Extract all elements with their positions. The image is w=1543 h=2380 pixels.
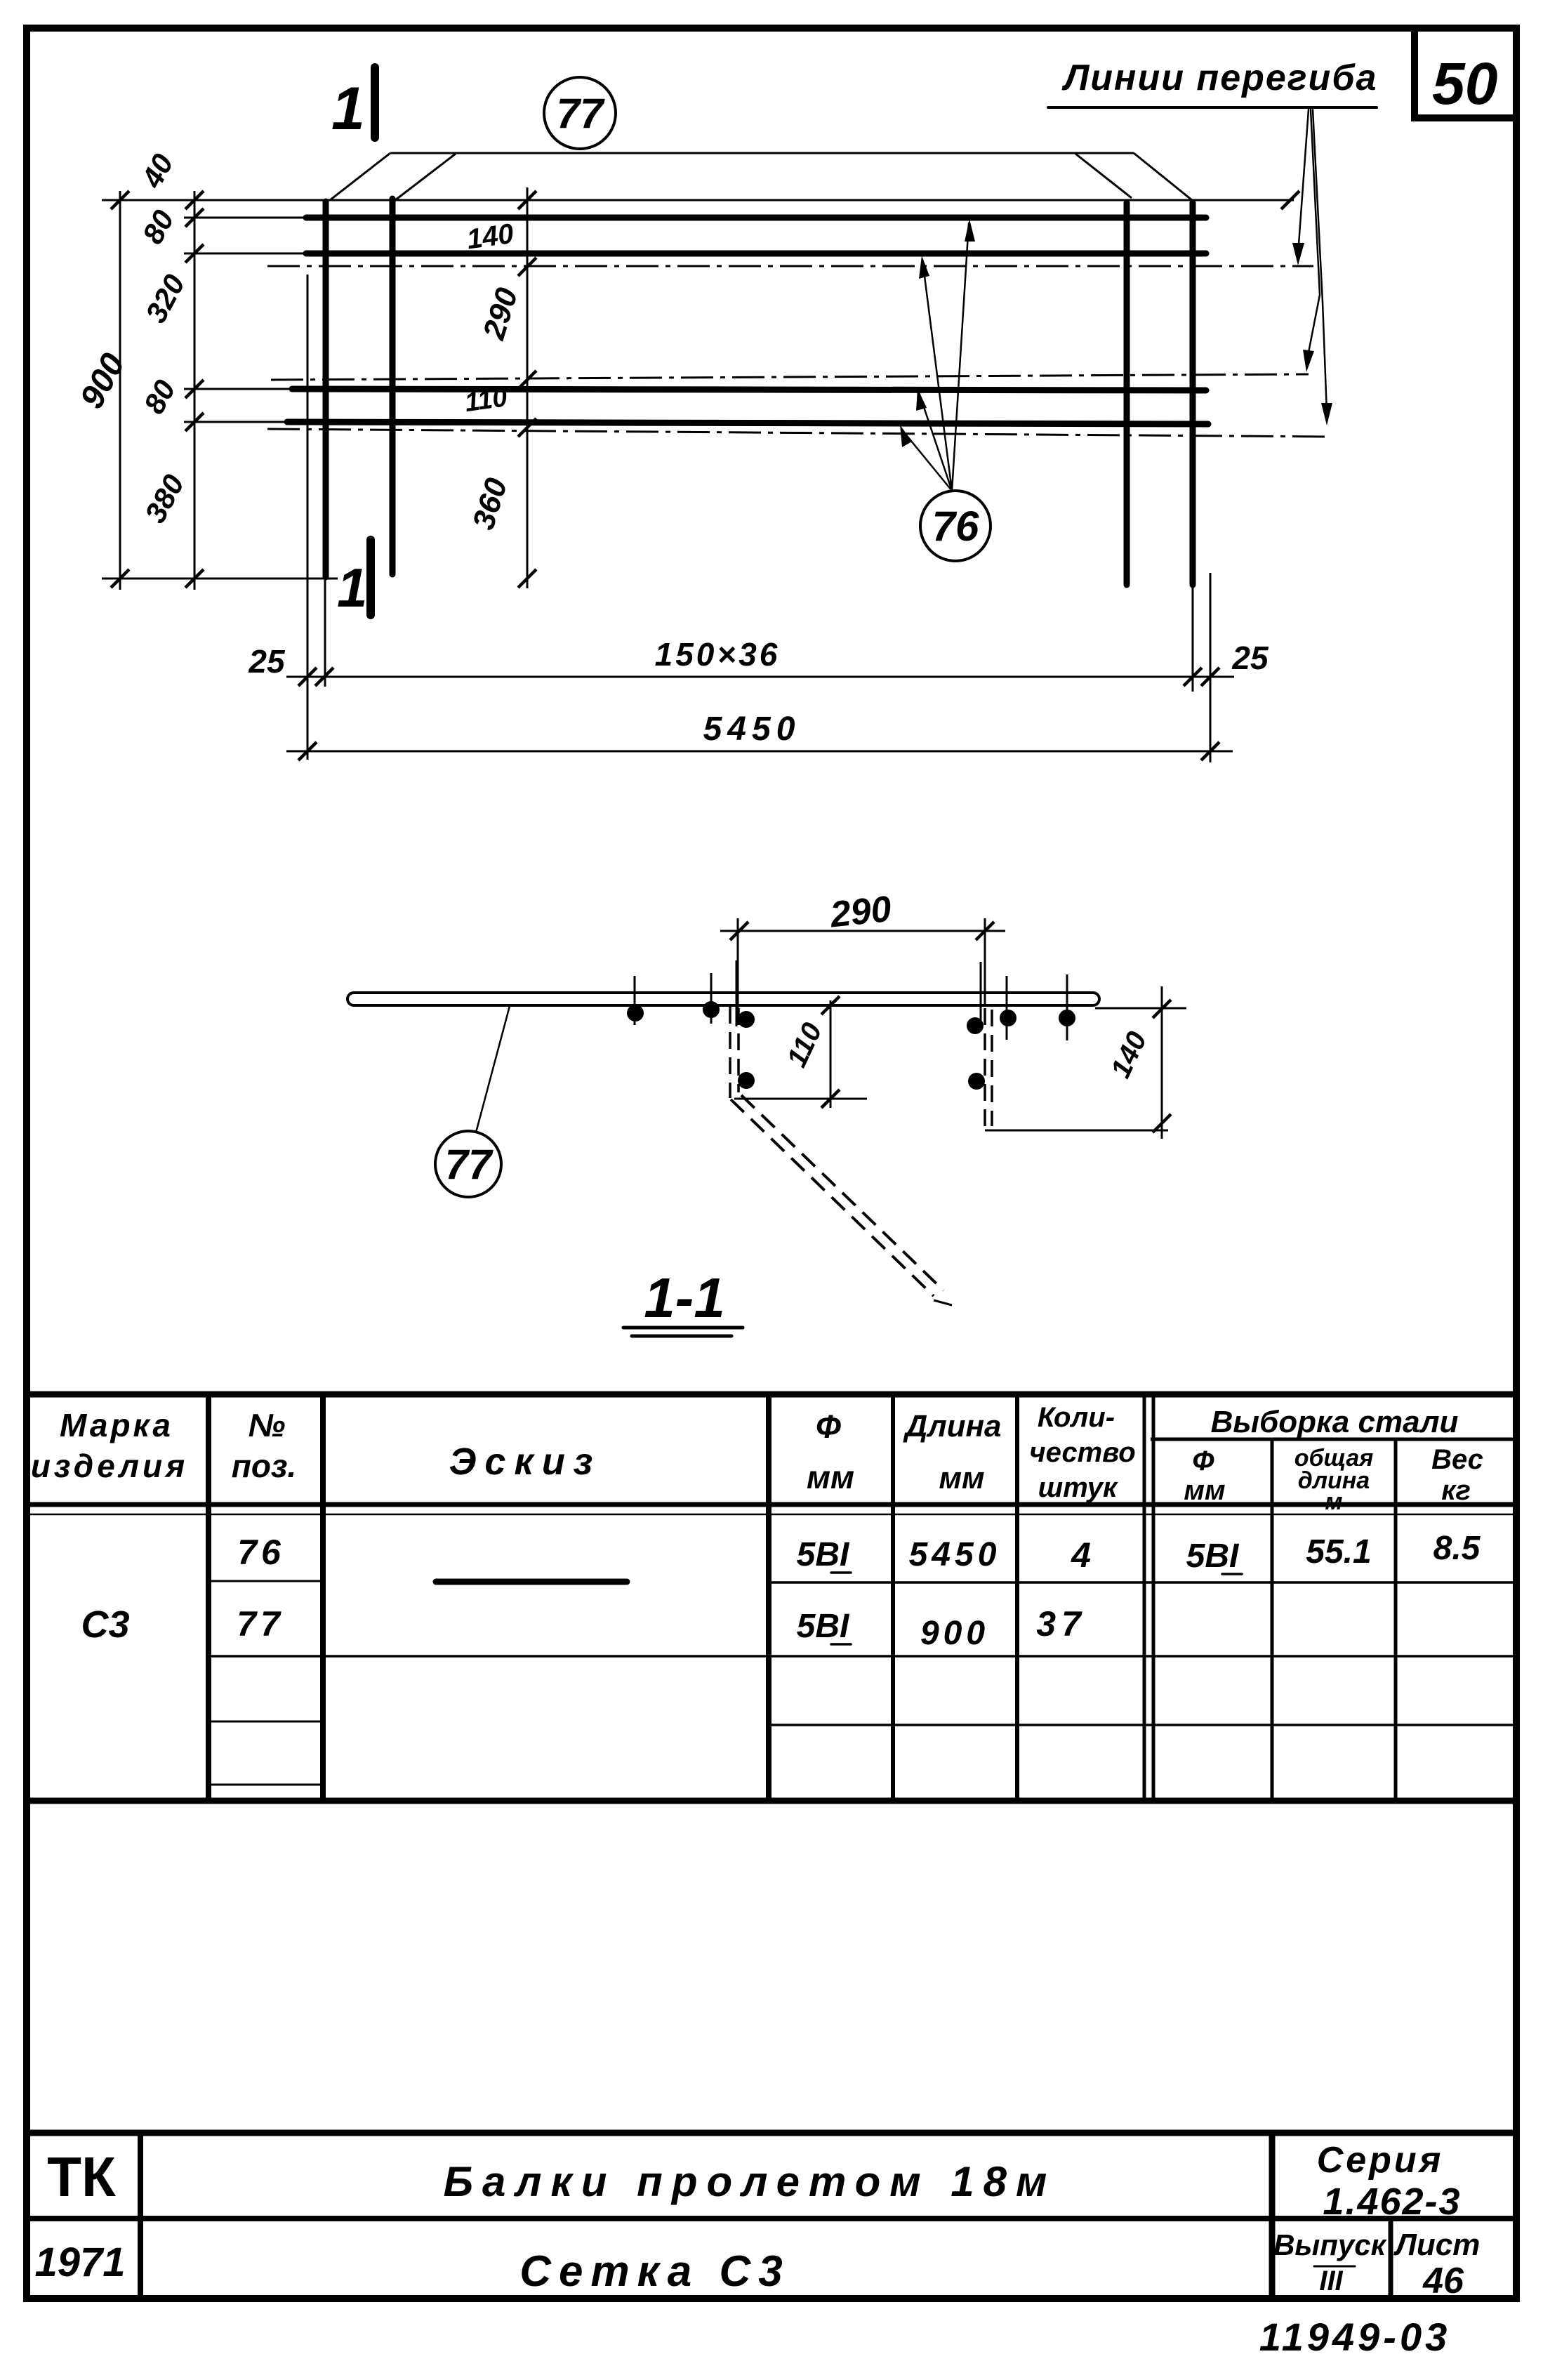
- leader arrow to fold line 2: [1307, 110, 1320, 359]
- header bottom thin line: [27, 1514, 1515, 1516]
- svg-text:мм: мм: [807, 1459, 854, 1495]
- bar 76 section dot: [627, 1005, 644, 1022]
- bar 76 section dot: [968, 1073, 985, 1090]
- thin extension of bar4 to dim column: [184, 421, 289, 423]
- crossing bar tick no.2: [710, 973, 713, 1024]
- right corner chamfer inner fold: [1075, 154, 1132, 198]
- svg-text:150×36: 150×36: [655, 636, 781, 673]
- table top border: [27, 1391, 1515, 1398]
- column line marka/pos: [206, 1394, 211, 1801]
- longitudinal bar 76 no.1: [306, 215, 1206, 221]
- extension line right bar end: [1210, 573, 1212, 762]
- SECTION 1-1: [347, 889, 1186, 1336]
- sheet top edge (unfolded): [390, 152, 1134, 154]
- fold line 3 dash-dot: [267, 429, 1327, 437]
- right corner chamfer outer: [1134, 153, 1192, 200]
- bar 76 section dot: [967, 1017, 984, 1034]
- svg-text:11949-03: 11949-03: [1259, 2315, 1451, 2359]
- dimension line 5450: [286, 751, 1233, 753]
- svg-text:110: 110: [463, 383, 509, 418]
- right fold dashed vertical: [984, 1008, 986, 1129]
- title block bottom border: [23, 2295, 1518, 2302]
- bottom edge line: [102, 578, 338, 580]
- svg-text:Ф: Ф: [816, 1408, 841, 1445]
- svg-text:Марка: Марка: [60, 1407, 173, 1443]
- svg-text:55.1: 55.1: [1306, 1533, 1371, 1571]
- fold line 1 dash-dot: [267, 265, 1313, 267]
- left fold dashed vertical (folded flap): [729, 1007, 731, 1098]
- svg-text:С3: С3: [81, 1604, 129, 1646]
- svg-text:Вес: Вес: [1431, 1444, 1483, 1475]
- crossing bar tick no.3: [1006, 976, 1008, 1040]
- bar 76 section dot: [703, 1001, 720, 1018]
- divider series column: [1269, 2133, 1276, 2299]
- svg-text:III: III: [1319, 2266, 1343, 2296]
- crossing bar tick no.1: [634, 976, 636, 1025]
- dimension vertical 140/290/110/360: [527, 187, 529, 588]
- svg-text:37: 37: [1036, 1604, 1087, 1644]
- leader fan from circle 76 to bar1: [952, 223, 969, 491]
- crossing bar tick at left fold: [736, 960, 738, 1026]
- row line 4 segment in pos column: [208, 1784, 322, 1786]
- bar 76 section dot: [1059, 1010, 1075, 1026]
- svg-text:900: 900: [920, 1615, 989, 1652]
- svg-text:25: 25: [1231, 640, 1269, 676]
- double column line kol/vyborka: [1143, 1394, 1146, 1801]
- 290 extension left: [737, 918, 739, 1017]
- header bottom heavy line: [27, 1502, 1515, 1507]
- svg-text:50: 50: [1432, 51, 1497, 117]
- svg-text:изделия: изделия: [31, 1448, 188, 1484]
- transverse bar 77 left no.2: [390, 199, 396, 574]
- svg-text:5ВI: 5ВI: [797, 1536, 850, 1573]
- dimension line 290: [720, 930, 1005, 932]
- TABLE: [27, 1394, 1515, 1801]
- title block top border: [27, 2130, 1515, 2136]
- svg-text:1-1: 1-1: [644, 1267, 725, 1329]
- longitudinal bar 76 no.4: [287, 422, 1208, 424]
- vyborka header underline: [1151, 1438, 1515, 1441]
- longitudinal bar 76 no.2: [306, 251, 1206, 257]
- svg-text:штук: штук: [1038, 1472, 1118, 1503]
- svg-text:76: 76: [237, 1533, 285, 1572]
- left fold bottom extension line: [734, 1098, 867, 1100]
- svg-text:1971: 1971: [34, 2240, 125, 2285]
- sheet number box 50: [1415, 29, 1515, 118]
- svg-text:290: 290: [828, 889, 893, 936]
- leader arrow to fold line 3: [1313, 110, 1327, 413]
- svg-text:кг: кг: [1441, 1475, 1471, 1506]
- svg-text:чество: чество: [1029, 1437, 1135, 1468]
- PLAN VIEW: [73, 58, 1377, 762]
- left corner chamfer inner fold: [395, 154, 456, 200]
- extension line left bar end: [307, 275, 309, 760]
- 290 extension right: [984, 918, 986, 1007]
- svg-text:1: 1: [337, 557, 367, 619]
- callout circle 76: [920, 491, 991, 561]
- transverse bar 77 right no.2: [1190, 203, 1196, 585]
- bar 76 section dot: [738, 1072, 755, 1089]
- dimension line 140 vertical: [1161, 986, 1163, 1139]
- row line 1 segment right section: [769, 1581, 1515, 1584]
- column line f/dlina: [891, 1394, 895, 1801]
- 140 top extension from bar end: [1095, 1007, 1186, 1010]
- svg-text:мм: мм: [939, 1461, 984, 1495]
- dimension line 110 vertical: [830, 1000, 832, 1108]
- svg-text:поз.: поз.: [232, 1448, 296, 1484]
- svg-text:Выборка стали: Выборка стали: [1211, 1405, 1459, 1439]
- label underline: [1048, 106, 1377, 109]
- column line dlina/kol: [1015, 1394, 1019, 1801]
- leader from circle 77 to bar: [476, 1006, 510, 1132]
- thin extension of bar2 to dim column: [184, 253, 307, 255]
- dimension line 150x36: [286, 676, 1234, 678]
- svg-text:77: 77: [557, 90, 605, 137]
- TITLE BLOCK: [23, 2133, 1518, 2359]
- svg-text:мм: мм: [1184, 1475, 1225, 1506]
- thin extension of bar1 to dim column: [184, 217, 307, 219]
- extension line below right transverse bar: [1192, 585, 1194, 692]
- svg-text:Серия: Серия: [1317, 2140, 1444, 2181]
- extension line below left transverse bar: [324, 577, 326, 687]
- svg-text:5ВI: 5ВI: [1186, 1538, 1240, 1575]
- title block row divider: [27, 2216, 1515, 2221]
- leader fan from circle 76 to bar3: [919, 392, 952, 491]
- sheet top fold edge / dimension line: [102, 199, 1294, 201]
- crossing bar tick at right fold: [980, 962, 982, 1031]
- svg-text:Выпуск: Выпуск: [1273, 2228, 1387, 2261]
- svg-text:5ВI: 5ВI: [797, 1608, 850, 1645]
- svg-text:5450: 5450: [909, 1536, 1001, 1573]
- row line 1 segment in pos column: [208, 1580, 322, 1582]
- svg-text:77: 77: [445, 1141, 494, 1188]
- label underline double: [623, 1326, 743, 1330]
- transverse bar 77 left no.1: [323, 201, 329, 577]
- bar 76 section dot: [1000, 1010, 1016, 1026]
- svg-text:Лист: Лист: [1393, 2228, 1481, 2262]
- svg-text:25: 25: [248, 643, 286, 680]
- fold line 2 dash-dot: [271, 374, 1309, 380]
- divider TK column: [138, 2133, 143, 2299]
- svg-text:Длина: Длина: [902, 1409, 1001, 1443]
- leader fan from circle 76 to bar4: [901, 429, 952, 491]
- svg-text:Эскиз: Эскиз: [449, 1441, 602, 1483]
- svg-text:1.462-3: 1.462-3: [1323, 2181, 1461, 2223]
- callout circle 77 top: [544, 77, 616, 149]
- svg-text:ТК: ТК: [47, 2146, 116, 2208]
- folded flap dashed diagonal: [731, 1099, 934, 1296]
- transverse bar 77 right no.1: [1124, 203, 1130, 585]
- dimension vertical 40/80/320/80/380: [194, 191, 196, 590]
- left corner chamfer outer: [330, 153, 390, 200]
- divider vypusk/list: [1389, 2219, 1393, 2299]
- eskiz bar sketch: [436, 1579, 627, 1585]
- svg-text:Ф: Ф: [1192, 1446, 1214, 1476]
- crossing bar tick no.4: [1066, 974, 1068, 1040]
- row line 2 across: [208, 1655, 1515, 1658]
- svg-text:Балки пролетом 18м: Балки пролетом 18м: [444, 2158, 1057, 2205]
- column line eskiz/f: [766, 1394, 771, 1801]
- svg-text:76: 76: [932, 503, 979, 550]
- table bottom border: [27, 1798, 1515, 1804]
- leader fan from circle 76 to bar2: [922, 260, 952, 491]
- svg-text:Линии перегиба: Линии перегиба: [1061, 58, 1378, 98]
- bar 76 section dot: [738, 1011, 755, 1028]
- thin extension of bar3 to dim column: [184, 388, 293, 390]
- longitudinal bar 76 no.3: [292, 389, 1206, 390]
- dimension vertical 900: [119, 191, 121, 590]
- right fold bottom extension line: [985, 1130, 1168, 1132]
- svg-text:140: 140: [465, 218, 515, 256]
- svg-text:5450: 5450: [703, 710, 801, 748]
- svg-text:77: 77: [237, 1604, 284, 1644]
- section ticks: [730, 922, 1171, 1132]
- svg-text:1: 1: [331, 75, 365, 143]
- flap end hook: [934, 1300, 952, 1305]
- svg-text:№: №: [249, 1407, 286, 1443]
- column line pos/eskiz: [320, 1394, 326, 1801]
- tick marks: [111, 191, 1299, 760]
- svg-text:8.5: 8.5: [1433, 1530, 1481, 1567]
- bent bar 77 flat top portion: [347, 993, 1099, 1005]
- svg-text:Коли-: Коли-: [1038, 1402, 1115, 1433]
- svg-text:46: 46: [1422, 2261, 1464, 2301]
- column line f2/obshaya: [1271, 1439, 1274, 1801]
- column line obshaya/ves: [1394, 1439, 1398, 1801]
- svg-text:Сетка С3: Сетка С3: [519, 2247, 790, 2296]
- row line 3 segment in pos column: [208, 1721, 322, 1723]
- callout circle 77 section: [435, 1131, 501, 1197]
- leader arrow to fold line 1: [1298, 110, 1309, 254]
- svg-text:4: 4: [1071, 1535, 1091, 1575]
- svg-text:м: м: [1325, 1488, 1342, 1515]
- row line 3 segment right section: [769, 1724, 1515, 1726]
